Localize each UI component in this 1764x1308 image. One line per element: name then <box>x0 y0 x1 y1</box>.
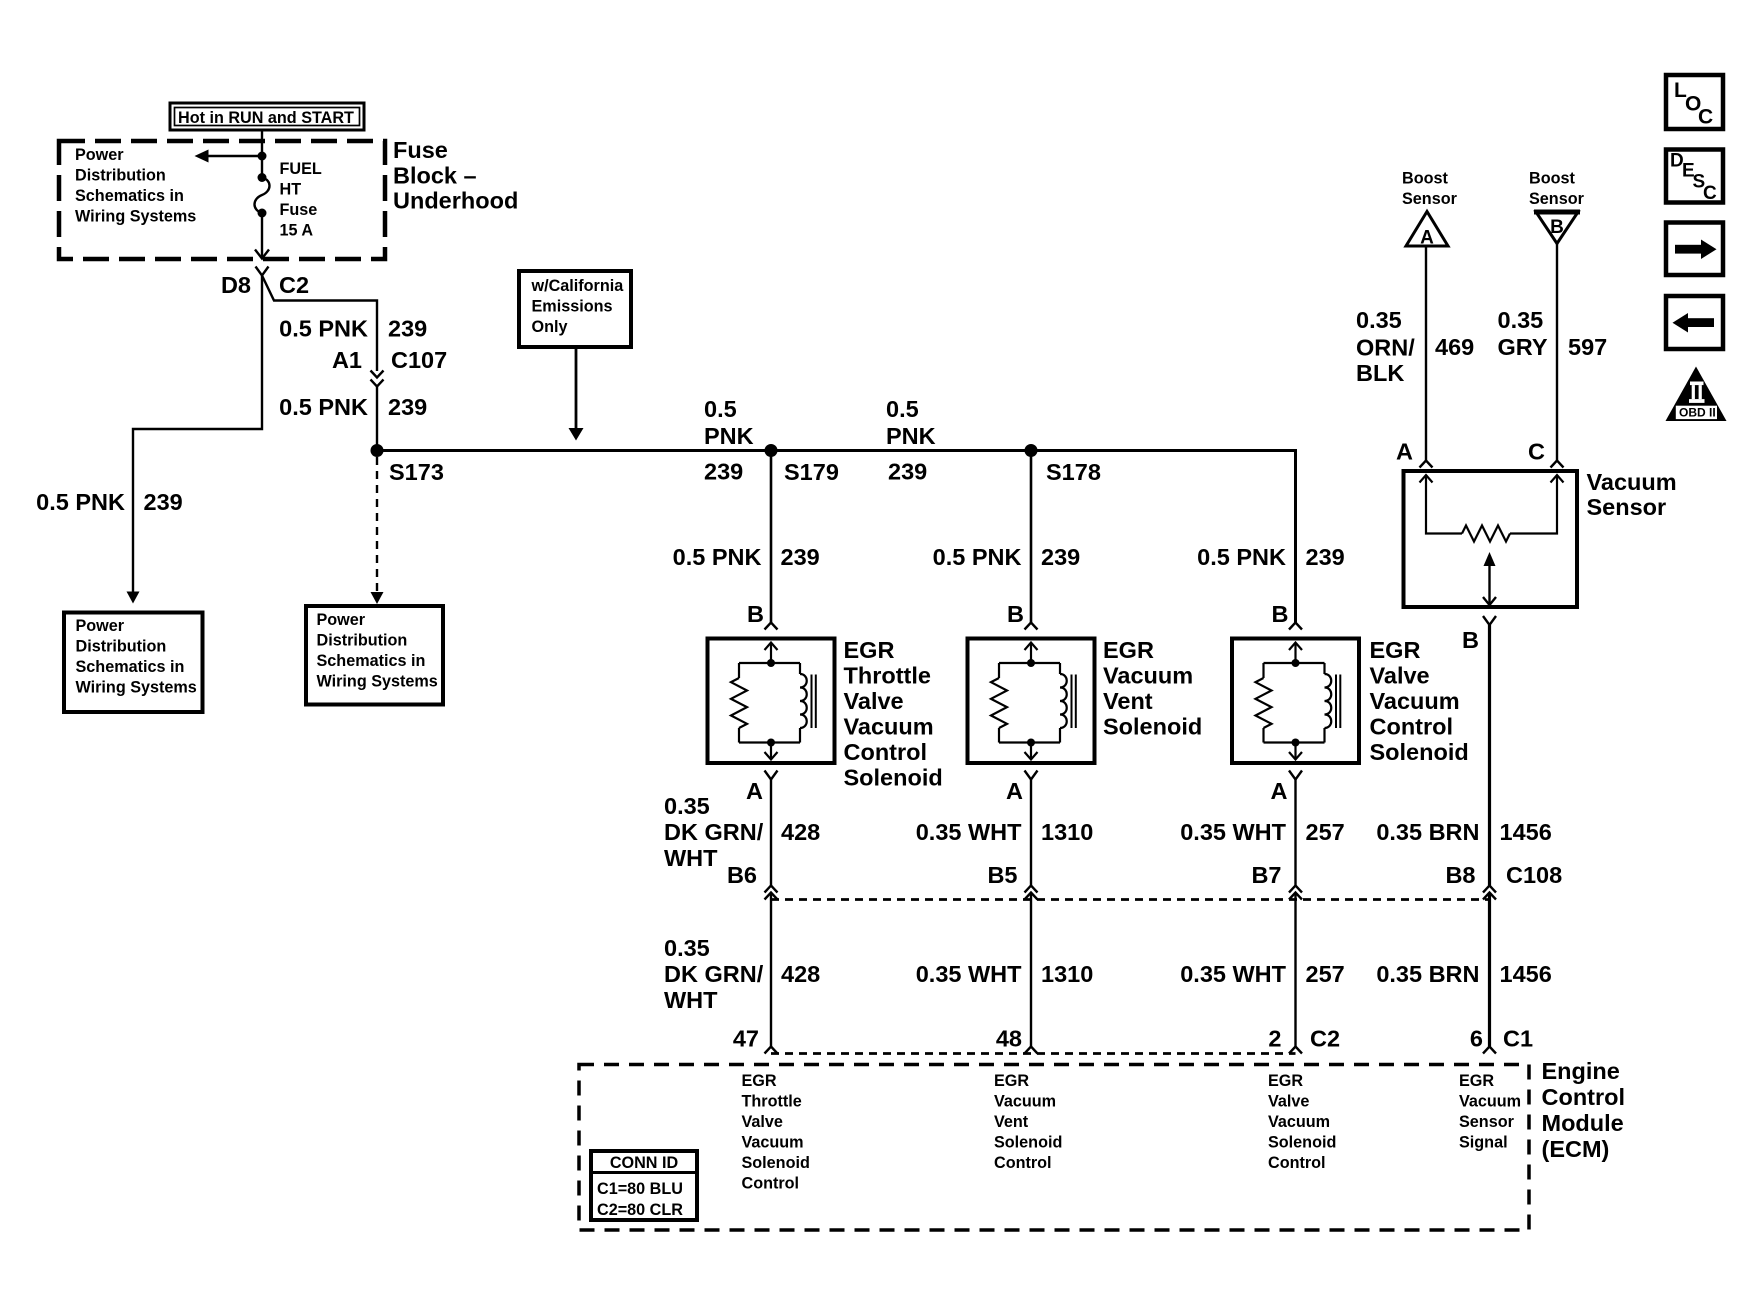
svg-text:B6: B6 <box>727 862 757 888</box>
svg-text:A: A <box>1420 228 1434 249</box>
svg-text:48: 48 <box>996 1026 1022 1052</box>
svg-text:0.5: 0.5 <box>886 396 919 422</box>
svg-text:S178: S178 <box>1046 459 1101 485</box>
svg-text:C108: C108 <box>1506 862 1562 888</box>
dashed wire: S173 to power distribution <box>376 457 378 592</box>
svg-text:Control: Control <box>1268 1154 1326 1172</box>
svg-text:257: 257 <box>1306 819 1345 845</box>
svg-text:Boost: Boost <box>1529 170 1575 188</box>
svg-text:Control: Control <box>994 1154 1052 1172</box>
svg-text:0.5 PNK: 0.5 PNK <box>279 316 368 342</box>
svg-text:Underhood: Underhood <box>393 188 518 214</box>
svg-text:Solenoid: Solenoid <box>742 1154 810 1172</box>
svg-text:Throttle: Throttle <box>844 663 931 689</box>
svg-text:Sensor: Sensor <box>1587 494 1667 520</box>
svg-text:0.5 PNK: 0.5 PNK <box>1197 544 1286 570</box>
svg-text:1456: 1456 <box>1500 961 1552 987</box>
svg-text:Vacuum: Vacuum <box>1103 663 1193 689</box>
svg-text:Control: Control <box>1542 1084 1626 1110</box>
svg-text:Wiring Systems: Wiring Systems <box>317 673 438 691</box>
terminal A solenoid 3 <box>1289 771 1302 780</box>
svg-text:w/California: w/California <box>531 277 625 295</box>
terminal A solenoid 1 <box>765 771 778 780</box>
svg-text:BLK: BLK <box>1356 360 1404 386</box>
svg-text:239: 239 <box>144 489 183 515</box>
svg-text:1310: 1310 <box>1041 961 1093 987</box>
svg-text:1310: 1310 <box>1041 819 1093 845</box>
svg-text:A: A <box>1396 439 1413 465</box>
svg-text:DK GRN/: DK GRN/ <box>664 819 764 845</box>
terminal B solenoid 1 <box>765 623 778 630</box>
svg-text:15 A: 15 A <box>280 222 314 240</box>
svg-text:Distribution: Distribution <box>317 632 408 650</box>
icon: forward arrow box <box>1666 223 1723 276</box>
svg-text:Schematics in: Schematics in <box>317 652 426 670</box>
svg-text:A1: A1 <box>332 347 362 373</box>
svg-text:Solenoid: Solenoid <box>1268 1134 1336 1152</box>
svg-text:428: 428 <box>781 961 820 987</box>
svg-text:EGR: EGR <box>994 1072 1029 1090</box>
svg-text:Solenoid: Solenoid <box>1370 739 1469 765</box>
svg-text:0.35 WHT: 0.35 WHT <box>1180 961 1286 987</box>
svg-text:239: 239 <box>704 459 743 485</box>
svg-text:239: 239 <box>388 394 427 420</box>
wire: C108 B5 to ECM 48 <box>1030 893 1032 1047</box>
svg-text:OBD II: OBD II <box>1679 406 1716 420</box>
svg-text:0.5: 0.5 <box>704 396 737 422</box>
CONN ID box <box>591 1151 697 1220</box>
svg-text:0.5 PNK: 0.5 PNK <box>36 489 125 515</box>
svg-text:A: A <box>1006 778 1023 804</box>
svg-text:Block –: Block – <box>393 162 477 188</box>
svg-text:Control: Control <box>742 1175 800 1193</box>
svg-text:C1: C1 <box>1503 1026 1533 1052</box>
svg-text:EGR: EGR <box>742 1072 777 1090</box>
terminal B solenoid 2 <box>1025 623 1038 630</box>
svg-text:0.35 BRN: 0.35 BRN <box>1376 961 1479 987</box>
svg-text:(ECM): (ECM) <box>1542 1136 1610 1162</box>
svg-text:2: 2 <box>1268 1026 1281 1052</box>
svg-text:Vacuum: Vacuum <box>1459 1093 1521 1111</box>
svg-text:Sensor: Sensor <box>1529 190 1585 208</box>
svg-text:S179: S179 <box>784 459 839 485</box>
wire: C108 B6 to ECM 47 <box>770 893 772 1047</box>
svg-text:Schematics in: Schematics in <box>75 187 184 205</box>
svg-text:Solenoid: Solenoid <box>1103 714 1202 740</box>
terminal A vacuum sensor <box>1420 461 1433 468</box>
svg-text:428: 428 <box>781 819 820 845</box>
svg-text:DK GRN/: DK GRN/ <box>664 961 764 987</box>
wire: solenoid 2 A to C108 <box>1030 780 1032 886</box>
wire: C2 branch to C107 <box>262 276 377 372</box>
splice S179 <box>765 444 778 457</box>
svg-text:B8: B8 <box>1445 862 1475 888</box>
svg-text:C2: C2 <box>1310 1026 1340 1052</box>
svg-text:239: 239 <box>781 544 820 570</box>
wire: fuse to fuse block edge, open arrow <box>261 213 263 257</box>
svg-text:C: C <box>1528 439 1545 465</box>
svg-text:PNK: PNK <box>886 423 936 449</box>
svg-text:Control: Control <box>844 739 928 765</box>
svg-text:Vent: Vent <box>994 1113 1029 1131</box>
solenoid L1: EGR Throttle Valve Vacuum Control Solenoid <box>708 639 835 764</box>
note box: Power Distribution Schematics in Wiring Systems (left) <box>64 613 203 713</box>
svg-text:Signal: Signal <box>1459 1134 1508 1152</box>
svg-text:Sensor: Sensor <box>1459 1113 1515 1131</box>
terminal B solenoid 3 <box>1289 623 1302 630</box>
power label box: Hot in RUN and START <box>170 103 364 130</box>
inline connector C108 pin B7 <box>1289 886 1302 893</box>
svg-text:6: 6 <box>1470 1026 1483 1052</box>
svg-text:Hot in RUN and START: Hot in RUN and START <box>178 109 354 127</box>
svg-text:Valve: Valve <box>844 688 904 714</box>
svg-text:HT: HT <box>280 181 302 199</box>
svg-text:B: B <box>1272 601 1289 627</box>
wire: hot box to fuse <box>261 130 263 178</box>
icon: back arrow box <box>1666 296 1723 349</box>
svg-text:B: B <box>747 601 764 627</box>
ECM pin 2 C2 <box>1289 1047 1302 1054</box>
svg-text:Power: Power <box>317 611 366 629</box>
svg-text:EGR: EGR <box>844 637 895 663</box>
wire: D8 branch down-left to power distribution <box>133 276 262 593</box>
icon: LOC box <box>1666 75 1723 129</box>
dashed connector line ECM pins <box>771 1052 1296 1055</box>
svg-text:Distribution: Distribution <box>76 638 167 656</box>
ECM pin 47 <box>765 1047 778 1054</box>
fuse block dashed box: Fuse Block - Underhood <box>59 141 385 259</box>
note box: Power Distribution Schematics in Wiring Systems (middle) <box>306 606 443 705</box>
wire: vacuum sensor B to C108 (1456) <box>1488 625 1491 886</box>
svg-text:239: 239 <box>1041 544 1080 570</box>
svg-text:Vacuum: Vacuum <box>742 1134 804 1152</box>
inline connector C108 pin B8 <box>1483 886 1496 893</box>
svg-text:Control: Control <box>1370 714 1454 740</box>
svg-text:GRY: GRY <box>1498 334 1548 360</box>
terminal B vacuum sensor <box>1483 616 1496 625</box>
vacuum sensor box <box>1404 471 1578 607</box>
wire: C107 to S173 <box>376 387 378 451</box>
dashed connector line C108 <box>771 898 1490 901</box>
svg-text:EGR: EGR <box>1370 637 1421 663</box>
svg-text:0.35: 0.35 <box>664 935 710 961</box>
svg-text:239: 239 <box>888 459 927 485</box>
inline connector C108 pin B5 <box>1025 886 1038 893</box>
svg-text:Vacuum: Vacuum <box>1587 469 1677 495</box>
terminal C vacuum sensor <box>1551 461 1564 468</box>
wire: solenoid 1 A to C108 <box>770 780 772 886</box>
resistor (vacuum sensor) <box>1462 526 1510 542</box>
svg-text:47: 47 <box>733 1026 759 1052</box>
svg-text:C2: C2 <box>279 272 309 298</box>
svg-text:0.5 PNK: 0.5 PNK <box>673 544 762 570</box>
icon: OBD II triangle <box>1666 367 1727 422</box>
svg-text:0.35 WHT: 0.35 WHT <box>916 819 1022 845</box>
svg-text:Solenoid: Solenoid <box>844 765 943 791</box>
boost sensor B triangle <box>1534 212 1580 244</box>
fuse value label <box>280 160 322 240</box>
svg-text:A: A <box>746 778 763 804</box>
wire: boost A to vacuum sensor A (469) <box>1425 247 1427 461</box>
svg-text:Throttle: Throttle <box>742 1093 802 1111</box>
variable arrow (vacuum sensor) <box>1484 552 1496 566</box>
svg-text:Sensor: Sensor <box>1402 190 1458 208</box>
svg-text:Boost: Boost <box>1402 170 1448 188</box>
svg-text:0.5 PNK: 0.5 PNK <box>933 544 1022 570</box>
svg-text:Power: Power <box>76 617 125 635</box>
svg-text:B: B <box>1550 217 1564 238</box>
wire: S178 drop to solenoid 2 <box>1030 451 1033 623</box>
svg-text:EGR: EGR <box>1268 1072 1303 1090</box>
wire: main 239 bus S173 to solenoid 3 <box>377 451 1296 623</box>
svg-text:Solenoid: Solenoid <box>994 1134 1062 1152</box>
svg-text:PNK: PNK <box>704 423 754 449</box>
icon: DESC box <box>1666 150 1723 205</box>
svg-text:Vacuum: Vacuum <box>1370 688 1460 714</box>
svg-text:Schematics in: Schematics in <box>76 658 185 676</box>
svg-text:0.35 WHT: 0.35 WHT <box>1180 819 1286 845</box>
svg-text:A: A <box>1271 778 1288 804</box>
svg-text:S173: S173 <box>389 459 444 485</box>
svg-text:Power: Power <box>75 146 124 164</box>
svg-text:0.5 PNK: 0.5 PNK <box>279 394 368 420</box>
svg-text:B7: B7 <box>1251 862 1281 888</box>
svg-text:Vent: Vent <box>1103 688 1153 714</box>
svg-text:C107: C107 <box>391 347 447 373</box>
solenoid L3: EGR Valve Vacuum Control Solenoid <box>1232 639 1359 764</box>
wire: solenoid 3 A to C108 <box>1294 780 1296 886</box>
svg-text:0.35 BRN: 0.35 BRN <box>1376 819 1479 845</box>
svg-text:0.35: 0.35 <box>1498 307 1544 333</box>
svg-text:C: C <box>1698 106 1713 129</box>
svg-text:Emissions: Emissions <box>532 298 613 316</box>
svg-text:239: 239 <box>1306 544 1345 570</box>
ECM dashed box <box>579 1065 1529 1231</box>
svg-text:B: B <box>1007 601 1024 627</box>
svg-text:1456: 1456 <box>1500 819 1552 845</box>
ECM pin 6 C1 <box>1483 1047 1496 1054</box>
svg-text:Valve: Valve <box>742 1113 783 1131</box>
solenoid L2: EGR Vacuum Vent Solenoid <box>968 639 1095 764</box>
svg-text:Fuse: Fuse <box>280 201 318 219</box>
svg-text:Engine: Engine <box>1542 1058 1620 1084</box>
svg-text:Module: Module <box>1542 1110 1624 1136</box>
svg-text:Vacuum: Vacuum <box>844 714 934 740</box>
connector terminal D8 / C2 <box>256 267 269 276</box>
splice S178 <box>1025 444 1038 457</box>
svg-text:0.35 WHT: 0.35 WHT <box>916 961 1022 987</box>
svg-text:EGR: EGR <box>1103 637 1154 663</box>
svg-text:Distribution: Distribution <box>75 167 166 185</box>
svg-text:0.35: 0.35 <box>1356 307 1402 333</box>
arrow: w/California to wire <box>575 347 578 429</box>
svg-text:Valve: Valve <box>1370 663 1430 689</box>
inline connector C107 <box>371 371 384 378</box>
fuse: FUEL HT Fuse 15 A <box>255 173 270 218</box>
svg-text:C2=80 CLR: C2=80 CLR <box>597 1201 683 1219</box>
svg-text:WHT: WHT <box>664 987 718 1013</box>
node: branch junction in fuse block <box>258 152 267 161</box>
svg-text:257: 257 <box>1306 961 1345 987</box>
svg-text:B: B <box>1462 627 1479 653</box>
svg-text:Wiring Systems: Wiring Systems <box>76 679 197 697</box>
svg-text:469: 469 <box>1435 334 1474 360</box>
svg-text:Fuse: Fuse <box>393 137 448 163</box>
svg-text:ORN/: ORN/ <box>1356 335 1415 361</box>
wire: boost B to vacuum sensor C (597) <box>1556 244 1558 461</box>
svg-text:C1=80 BLU: C1=80 BLU <box>597 1180 683 1198</box>
inline connector C108 pin B6 <box>765 886 778 893</box>
svg-text:D8: D8 <box>221 272 251 298</box>
svg-text:EGR: EGR <box>1459 1072 1494 1090</box>
boost sensor A triangle <box>1406 212 1448 249</box>
wire: C108 B7 to ECM 2 <box>1294 893 1296 1047</box>
svg-text:WHT: WHT <box>664 845 718 871</box>
svg-text:Valve: Valve <box>1268 1093 1309 1111</box>
note box: w/California Emissions Only <box>519 271 631 347</box>
svg-text:Only: Only <box>532 318 568 336</box>
svg-text:FUEL: FUEL <box>280 160 322 178</box>
svg-text:597: 597 <box>1568 334 1607 360</box>
svg-text:CONN ID: CONN ID <box>610 1154 679 1172</box>
svg-text:C: C <box>1703 183 1717 204</box>
splice S173 <box>371 444 384 457</box>
terminal A solenoid 2 <box>1025 771 1038 780</box>
svg-text:0.35: 0.35 <box>664 793 710 819</box>
svg-text:B5: B5 <box>987 862 1017 888</box>
wire: C108 B8 to ECM 6 <box>1488 893 1491 1047</box>
svg-text:Vacuum: Vacuum <box>994 1093 1056 1111</box>
svg-text:Vacuum: Vacuum <box>1268 1113 1330 1131</box>
wire: branch to power distribution (left arrow) <box>206 155 262 157</box>
svg-text:Wiring Systems: Wiring Systems <box>75 208 196 226</box>
ECM pin 48 <box>1025 1047 1038 1054</box>
wire: S179 drop to solenoid 1 <box>770 451 773 623</box>
svg-text:239: 239 <box>388 316 427 342</box>
